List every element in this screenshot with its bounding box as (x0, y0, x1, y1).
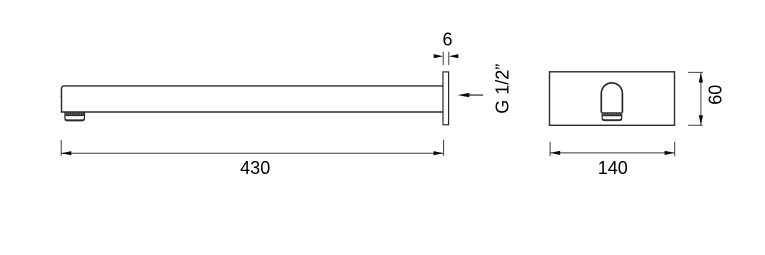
dim 6 arrows (434, 54, 444, 58)
dim 430 line (61, 152, 443, 154)
spout body side view (62, 86, 444, 112)
dim 60 extension lines (688, 72, 703, 125)
svg-text:6: 6 (442, 30, 452, 50)
aerator side view (65, 112, 85, 120)
dim 140 line (550, 152, 675, 154)
dim 60 line (700, 72, 702, 125)
aerator front view (602, 113, 622, 120)
svg-text:430: 430 (240, 158, 270, 178)
wall plate front view (550, 72, 675, 126)
wall flange side view (443, 72, 449, 125)
dim 430 extension lines (61, 140, 443, 156)
dim 140 extension lines (550, 142, 675, 157)
dim 6 extension lines (443, 52, 449, 65)
G 1/2 arrow (466, 94, 483, 96)
svg-text:60: 60 (706, 85, 726, 105)
svg-text:G 1/2”: G 1/2” (493, 64, 513, 114)
spout arch front view (601, 83, 622, 113)
svg-text:140: 140 (598, 158, 628, 178)
spout tip edge ticks (61, 90, 62, 97)
